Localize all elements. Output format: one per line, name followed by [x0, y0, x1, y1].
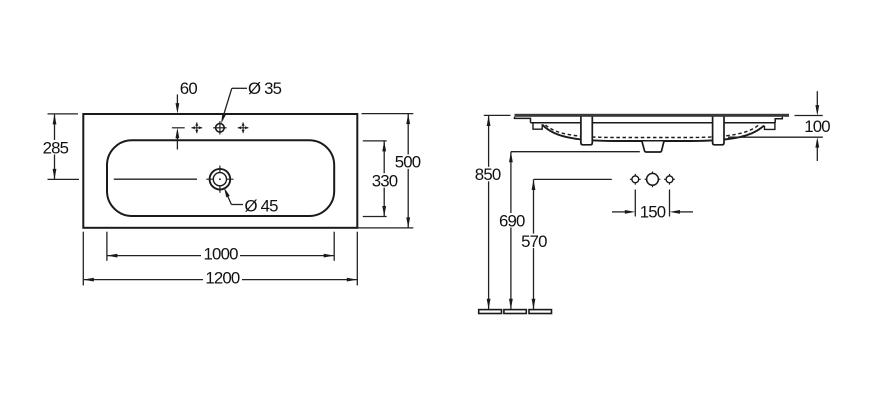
svg-text:570: 570	[521, 232, 547, 251]
svg-text:60: 60	[180, 79, 198, 98]
svg-text:330: 330	[372, 171, 398, 190]
svg-text:1000: 1000	[204, 245, 239, 264]
svg-text:150: 150	[640, 202, 666, 221]
svg-text:690: 690	[499, 211, 525, 230]
svg-text:1200: 1200	[205, 269, 240, 288]
svg-text:100: 100	[804, 117, 830, 136]
svg-text:500: 500	[395, 153, 421, 172]
svg-text:850: 850	[475, 165, 501, 184]
svg-text:285: 285	[43, 138, 69, 157]
svg-text:Ø 35: Ø 35	[248, 79, 282, 98]
svg-text:Ø 45: Ø 45	[245, 196, 279, 215]
